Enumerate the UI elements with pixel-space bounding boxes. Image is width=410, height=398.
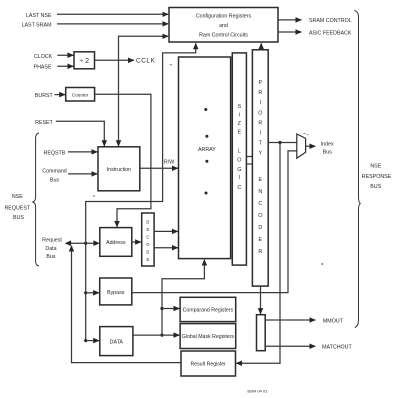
svg-text:Index: Index xyxy=(321,141,334,147)
wire priority encoder top to config xyxy=(260,43,262,50)
svg-text:O: O xyxy=(258,213,262,219)
svg-text:Data: Data xyxy=(45,246,56,252)
svg-text:R/W: R/W xyxy=(164,160,174,166)
wire BURST arrow xyxy=(55,94,66,96)
svg-text:Bypass: Bypass xyxy=(107,290,125,296)
svg-text:I: I xyxy=(239,175,241,181)
svg-text:and: and xyxy=(219,23,228,29)
svg-text:D: D xyxy=(258,225,262,231)
wire request-data vertical bus to config xyxy=(86,44,196,341)
arrow into config bottom from bus xyxy=(195,43,197,49)
wire CCLK xyxy=(95,59,135,61)
svg-text:CLOCK: CLOCK xyxy=(34,54,53,60)
node junction bypass branch xyxy=(84,291,87,294)
size logic box xyxy=(232,53,246,265)
wire Command Bus to instruction xyxy=(68,173,97,175)
wire data branch arrow xyxy=(86,340,100,342)
wire ASIC FEEDBACK out xyxy=(278,31,302,33)
svg-text:BUS: BUS xyxy=(13,215,24,221)
wire CCLK branch to config input xyxy=(119,36,169,60)
label Command Bus xyxy=(42,169,66,184)
node junction request data xyxy=(84,242,87,245)
svg-text:E: E xyxy=(258,177,262,183)
brace right NSE response bus xyxy=(354,10,360,327)
configuration registers box U-CFG xyxy=(169,8,278,43)
svg-text:NSE: NSE xyxy=(12,194,23,200)
svg-text:8004 04 01: 8004 04 01 xyxy=(247,389,268,394)
svg-text:C: C xyxy=(146,235,149,240)
svg-text:I: I xyxy=(260,131,262,137)
svg-text:E: E xyxy=(258,237,262,243)
data box xyxy=(100,327,133,356)
svg-text:ASIC FEEDBACK: ASIC FEEDBACK xyxy=(309,30,352,36)
brace left NSE request bus xyxy=(33,133,39,266)
svg-text:D: D xyxy=(146,220,149,225)
svg-text:N: N xyxy=(258,189,262,195)
svg-text:G: G xyxy=(237,167,241,173)
svg-text:Request: Request xyxy=(42,238,62,244)
wire priority encoder bottom to flag reg xyxy=(260,286,262,314)
svg-text:O: O xyxy=(237,158,241,164)
svg-text:Bus: Bus xyxy=(323,150,332,156)
wire array data feed from DATA line up into array bottom xyxy=(162,260,204,336)
svg-text:RESPONSE: RESPONSE xyxy=(362,174,392,180)
wire address to decode xyxy=(132,241,141,243)
wire result register return to request bus xyxy=(72,246,182,363)
wire DATA out to global mask xyxy=(133,334,180,336)
svg-text:S: S xyxy=(237,104,241,110)
svg-text:L: L xyxy=(238,149,241,155)
node array dot 2 xyxy=(205,135,208,138)
wire index down to result register xyxy=(236,143,280,364)
svg-text:MATCHOUT: MATCHOUT xyxy=(322,345,352,351)
svg-text:Global Mask Registers: Global Mask Registers xyxy=(182,334,235,340)
svg-text:SRAM CONTROL: SRAM CONTROL xyxy=(309,18,352,24)
svg-text:ARRAY: ARRAY xyxy=(198,147,216,153)
label Request Data Bus xyxy=(42,238,62,261)
mark dot right area xyxy=(321,263,323,265)
svg-text:Comparand Registers: Comparand Registers xyxy=(183,308,234,314)
wire tick size logic to priority encoder lower xyxy=(246,163,252,165)
wire counter to address xyxy=(95,94,151,227)
svg-text:BURST: BURST xyxy=(35,93,54,99)
counter box xyxy=(66,88,95,102)
svg-text:Z: Z xyxy=(238,121,242,127)
svg-text:R: R xyxy=(258,249,262,255)
svg-text:Ram Control Circuits: Ram Control Circuits xyxy=(199,33,248,39)
svg-text:Bus: Bus xyxy=(50,178,59,184)
mark dashes above mux xyxy=(303,134,308,135)
svg-text:Address: Address xyxy=(106,240,126,246)
wire CLOCK arrow xyxy=(57,54,73,56)
svg-text:C: C xyxy=(237,185,241,191)
node junction index down xyxy=(278,141,281,144)
svg-text:PHASE: PHASE xyxy=(34,65,52,71)
global mask registers box xyxy=(180,324,236,349)
node junction comparand feed xyxy=(160,307,163,310)
wire PHASE arrow xyxy=(57,65,73,67)
divider box /2 xyxy=(74,52,95,69)
svg-text:DATA: DATA xyxy=(110,340,124,346)
priority encoder box xyxy=(252,50,268,286)
svg-text:Bus: Bus xyxy=(46,254,55,260)
svg-text:T: T xyxy=(259,141,263,147)
svg-text:NSE: NSE xyxy=(370,163,381,169)
result register box xyxy=(181,351,236,376)
decode box xyxy=(142,213,154,266)
wire mux output index bus xyxy=(306,145,316,147)
wire bypass branch arrow xyxy=(86,292,99,294)
svg-text:Instruction: Instruction xyxy=(107,167,131,173)
node junction data out xyxy=(160,334,163,337)
wire decode to array upper xyxy=(154,230,178,232)
address box xyxy=(100,228,132,257)
node array dot 1 xyxy=(204,108,207,111)
wire bypass to mux xyxy=(132,151,297,293)
svg-text:E: E xyxy=(237,130,241,136)
instruction box xyxy=(98,147,140,191)
arrowhead left request data xyxy=(65,240,71,246)
svg-text:R: R xyxy=(258,120,262,126)
svg-text:I: I xyxy=(239,113,241,119)
svg-text:REQUEST: REQUEST xyxy=(4,206,30,212)
wire RESET to instruction xyxy=(56,121,105,146)
wire REQSTB to instruction xyxy=(68,151,97,153)
wire tick size logic to priority encoder upper xyxy=(246,156,252,158)
svg-text:Y: Y xyxy=(258,151,262,157)
wire MMOUT xyxy=(265,319,315,321)
array box xyxy=(179,57,231,259)
svg-text:BUS: BUS xyxy=(370,184,381,190)
flag register box xyxy=(257,315,266,351)
svg-text:R: R xyxy=(258,90,262,96)
mark dash left of array xyxy=(170,64,172,66)
comparand registers box xyxy=(180,297,236,321)
svg-text:O: O xyxy=(258,110,262,116)
svg-text:LAST NSE: LAST NSE xyxy=(26,13,52,19)
node junction data branch xyxy=(84,339,87,342)
svg-text:Counter: Counter xyxy=(72,92,89,97)
svg-text:C: C xyxy=(258,201,262,207)
svg-text:E: E xyxy=(147,257,150,262)
svg-text:MMOUT: MMOUT xyxy=(323,318,344,324)
node array dot 3 xyxy=(205,160,208,163)
svg-text:LAST SRAM: LAST SRAM xyxy=(22,22,52,28)
svg-text:P: P xyxy=(258,80,262,86)
wire SRAM CONTROL out xyxy=(278,19,302,21)
wire CCLK down to instruction xyxy=(118,60,120,146)
svg-text:I: I xyxy=(260,100,262,106)
mark dash below instruction xyxy=(93,195,95,197)
svg-text:D: D xyxy=(146,250,149,255)
wire request data bidirectional xyxy=(71,242,95,244)
wire R/W instruction to array xyxy=(140,167,178,169)
svg-text:CCLK: CCLK xyxy=(136,58,156,65)
bypass box xyxy=(100,278,132,305)
wire MATCHOUT xyxy=(265,345,315,347)
wire LAST NSE to config xyxy=(57,13,168,15)
svg-text:Command: Command xyxy=(42,169,66,175)
svg-text:E: E xyxy=(147,227,150,232)
svg-text:Result Register: Result Register xyxy=(190,362,226,368)
wire comparand feed arrow xyxy=(162,308,180,310)
svg-text:÷ 2: ÷ 2 xyxy=(79,58,89,65)
svg-text:RESET: RESET xyxy=(35,120,53,126)
label NSE RESPONSE BUS xyxy=(362,163,392,190)
svg-text:O: O xyxy=(146,242,150,247)
label Index Bus xyxy=(321,141,334,155)
svg-text:Configuration Registers: Configuration Registers xyxy=(196,14,252,20)
svg-text:REQSTB: REQSTB xyxy=(44,151,66,157)
wire LAST SRAM to config xyxy=(57,23,168,25)
arrowhead right into address xyxy=(93,240,99,246)
label NSE REQUEST BUS xyxy=(4,194,30,221)
mux xyxy=(297,134,306,158)
wire decode to array lower xyxy=(154,247,178,249)
wire priority encoder out to mux xyxy=(268,142,297,144)
node array dot 4 xyxy=(205,192,208,195)
